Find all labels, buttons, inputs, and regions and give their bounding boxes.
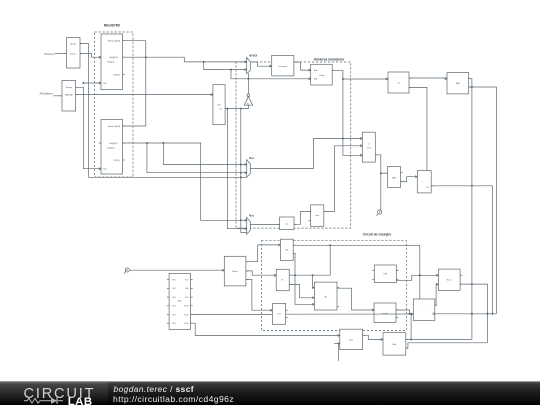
flip-flop DAP3 xyxy=(385,166,402,187)
dashed group Circuit de rotunjire xyxy=(261,241,406,331)
svg-text:P: P xyxy=(126,268,128,272)
wire Acc net to MUX2 select xyxy=(241,109,247,233)
flip-flop DAP1 xyxy=(386,72,411,93)
svg-text:Pin3: Pin3 xyxy=(172,297,175,299)
wire branch to COMP1 input B xyxy=(231,70,311,80)
block Barrel shifter xyxy=(222,256,248,286)
wire U2 Ready to register clocks xyxy=(76,82,101,169)
wire U2 MACINE to CLK divider xyxy=(76,94,213,96)
wire branch to MUX8X input 2 xyxy=(204,62,247,71)
wire clock branch to REG1 CLK xyxy=(83,82,101,84)
wire CB net to CD pin1 xyxy=(313,275,315,287)
wire main bus right xyxy=(435,313,497,315)
svg-text:Pin9: Pin9 xyxy=(185,297,188,299)
wire mux H out1 to bus xyxy=(406,338,472,340)
svg-text:Reg[31:0]: Reg[31:0] xyxy=(109,57,118,59)
svg-text:Increment: Increment xyxy=(279,65,288,68)
label Mux (upper) xyxy=(249,158,254,160)
svg-text:Roun: Roun xyxy=(447,280,452,282)
wire MUX2 out to latch U4 xyxy=(250,224,279,226)
wire branch to DAP3 xyxy=(381,172,388,174)
wire header pin to main bus left xyxy=(191,314,273,316)
dashed group Alinierea mantiselor xyxy=(236,62,351,228)
wire mux H out2 loop xyxy=(406,343,488,348)
block U3 CLK divider xyxy=(211,85,228,125)
wire Al Doilea w to U2 xyxy=(54,95,63,97)
svg-text:O[31:0]: O[31:0] xyxy=(113,74,120,76)
mux MUX8X xyxy=(247,58,251,74)
wire stub down xyxy=(338,344,340,362)
block U5 shifter st xyxy=(360,132,377,162)
flip-flop DAP2 xyxy=(445,73,471,94)
pin entry arrows xyxy=(99,56,447,340)
inverting buffer Acc (triangle with bubble) xyxy=(244,94,253,106)
wire MUX1 out to U5 pin1 xyxy=(250,139,362,169)
svg-text:Ready: Ready xyxy=(66,87,72,89)
CircuitLab logo xyxy=(0,382,108,405)
wire COMP1 out to U5 pin3 xyxy=(332,70,362,155)
svg-text:Pin4: Pin4 xyxy=(172,306,175,308)
svg-text:Register: Register xyxy=(107,61,115,64)
svg-text:Bmw: Bmw xyxy=(178,301,183,303)
wire MUX8X select to Acc bubble xyxy=(247,73,249,94)
svg-text:Ready: Ready xyxy=(70,44,76,46)
wire DAP3 out to normalizer U6 xyxy=(401,177,418,182)
svg-text:Lat: Lat xyxy=(285,223,288,226)
block CD selector xyxy=(312,282,339,310)
svg-text:Pin10: Pin10 xyxy=(184,306,188,308)
dashed group REGISTRII xyxy=(95,32,134,177)
svg-text:Memoriu[31:0]: Memoriu[31:0] xyxy=(108,125,121,128)
wire Barrel out1 to CA xyxy=(246,245,281,262)
svg-text:Register: Register xyxy=(107,146,115,149)
svg-text:Mux: Mux xyxy=(249,158,254,160)
wire Barrel out2 to CB xyxy=(246,271,276,275)
port label Al Doilea w xyxy=(40,91,53,95)
wire CB out net xyxy=(289,245,330,276)
label MUX8X xyxy=(249,55,257,57)
block CB Fu xyxy=(274,269,291,290)
svg-text:MACINE: MACINE xyxy=(65,93,73,96)
svg-text:Al Doilea w: Al Doilea w xyxy=(40,91,53,95)
svg-text:MUX8X: MUX8X xyxy=(249,55,257,57)
wire U1 out to REG1 input xyxy=(80,54,101,58)
mux MUX2 xyxy=(247,218,251,235)
block CC LUT xyxy=(270,303,288,324)
port label Primul w xyxy=(45,52,55,56)
wire mux G out to mux H xyxy=(363,335,383,339)
wire U1 Ready to MUX1 select xyxy=(80,44,247,179)
wire bus drop x411 xyxy=(410,314,412,339)
wire Acc net to MUX2 input 2 xyxy=(227,109,246,229)
footer bar xyxy=(0,381,540,405)
comparator COMP2 xyxy=(308,205,326,226)
wire DAP2 out1 down right bus xyxy=(469,79,473,340)
svg-text:Fu: Fu xyxy=(281,280,283,282)
wire CLK divider out / Acc net xyxy=(225,105,248,109)
label REGISTRII xyxy=(104,23,120,27)
svg-text:Pin6: Pin6 xyxy=(172,323,175,325)
wire CA out1 top net to box I xyxy=(293,244,421,299)
wire REG1 Memoriu out to REG2 in xyxy=(123,41,146,126)
svg-text:Circuit de rotunjire: Circuit de rotunjire xyxy=(363,232,392,236)
svg-text:Cmp: Cmp xyxy=(315,215,319,217)
mux MUX1 xyxy=(247,160,251,178)
svg-text:Pin12: Pin12 xyxy=(184,323,188,325)
wire REG1 Reg out to MUX8X input 1 xyxy=(123,56,247,63)
svg-text:Pin7: Pin7 xyxy=(185,280,188,282)
block CF rounder xyxy=(372,303,398,323)
wire normalizer out down bus xyxy=(431,186,492,314)
wire header pin to mux G xyxy=(191,323,340,335)
mux block H xyxy=(381,333,408,355)
wire box I out to Mid2 pin2 xyxy=(435,284,439,305)
wire Incrementor out to COMP1 input A xyxy=(294,62,311,70)
probe P1 xyxy=(124,268,129,274)
block CA const xyxy=(278,239,295,260)
register REG2 xyxy=(99,120,125,175)
svg-text:REGISTRII: REGISTRII xyxy=(104,23,120,27)
svg-text:Primul w: Primul w xyxy=(45,52,55,56)
svg-text:LAB: LAB xyxy=(68,396,93,405)
wire CA out2 to CD pin3 xyxy=(293,253,314,304)
block U1 input latch Primul xyxy=(64,38,82,69)
probe P2 xyxy=(377,210,382,216)
svg-text:Pin11: Pin11 xyxy=(184,314,188,316)
label Alinierea mantiselor xyxy=(314,57,345,61)
pin header J1 xyxy=(167,273,193,329)
svg-text:CLK: CLK xyxy=(217,105,222,107)
flip-flop CE xyxy=(372,265,398,282)
wire Primul w to U1 xyxy=(55,53,67,55)
svg-text:Pin8: Pin8 xyxy=(185,288,188,290)
svg-text:Memoriu[31:0]: Memoriu[31:0] xyxy=(108,40,121,43)
wire COMP2 out to U5 pin2 xyxy=(324,146,363,212)
comparator COMP1 xyxy=(309,64,335,85)
wire REG2 Reg out to MUX2 input 1 xyxy=(123,142,247,221)
svg-text:Barrel: Barrel xyxy=(232,270,238,273)
wire CE out2 to Mid2 pin1 xyxy=(397,274,439,280)
svg-text:O[31:0]: O[31:0] xyxy=(113,160,120,162)
svg-text:Pin1: Pin1 xyxy=(172,280,175,282)
wire DAP2 out2 down outer bus xyxy=(469,87,497,314)
wire Mid2 out down xyxy=(460,283,488,343)
wire Barrel out3 to CC xyxy=(246,280,273,311)
block U6 normalizer xyxy=(415,171,433,193)
register REG1 xyxy=(99,34,125,90)
svg-text:Mux: Mux xyxy=(349,339,353,341)
wire main bus center xyxy=(286,313,414,315)
wire branch to MUX1 input 1 xyxy=(163,143,246,166)
wire CF out to bus xyxy=(396,310,411,315)
svg-text:Mux: Mux xyxy=(249,216,254,218)
svg-text:st/24: st/24 xyxy=(367,146,371,149)
svg-text:P: P xyxy=(379,210,381,214)
label Circuit de rotunjire xyxy=(363,232,392,236)
svg-text:Mux: Mux xyxy=(393,344,397,346)
block Incrementor xyxy=(270,55,297,76)
svg-text:nDate 1: nDate 1 xyxy=(69,52,77,55)
svg-text:Pin5: Pin5 xyxy=(172,314,175,316)
wire mux G input stub xyxy=(334,343,340,345)
wire DAP1 out1 to DAP2 xyxy=(409,77,447,79)
svg-text:Alinierea mantiselor: Alinierea mantiselor xyxy=(314,57,345,61)
label Mux (lower) xyxy=(249,216,254,218)
block U4 small latch after MUX2 xyxy=(277,217,296,230)
block I output stage xyxy=(411,299,437,321)
wire DAP1 out2 to normalizer top xyxy=(409,87,427,170)
wire latch U4 to COMP2 xyxy=(294,211,311,224)
svg-text:Reg[31:0]: Reg[31:0] xyxy=(109,143,118,145)
wire probe P1 to Barrel xyxy=(130,269,225,271)
wire branch to MUX1 input 2 xyxy=(147,143,247,174)
mux block G xyxy=(338,329,365,349)
wire MUX8X out to Incrementor xyxy=(250,62,271,66)
block U2 input latch Al Doilea xyxy=(60,80,78,111)
svg-text:Div: Div xyxy=(220,108,223,110)
mux block Mid2 xyxy=(436,269,462,290)
wire U5 out to probe P2 xyxy=(375,155,382,210)
svg-text:Comp: Comp xyxy=(319,75,324,77)
svg-text:Acc: Acc xyxy=(247,102,250,105)
wire COMP1 net to DAP1 input xyxy=(343,78,388,80)
svg-text:Rd: Rd xyxy=(286,250,288,252)
wire CB out2 to CD pin2 xyxy=(289,285,314,298)
svg-text:Pin2: Pin2 xyxy=(172,288,175,290)
wire CD out to CF xyxy=(337,288,374,310)
